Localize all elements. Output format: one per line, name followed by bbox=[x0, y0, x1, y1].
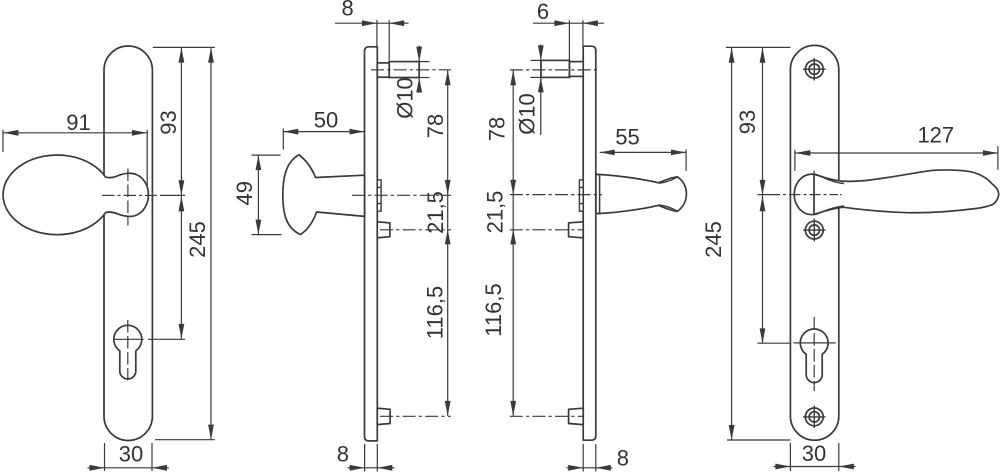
svg-text:30: 30 bbox=[119, 442, 143, 467]
svg-text:93: 93 bbox=[156, 110, 181, 134]
svg-text:Ø10: Ø10 bbox=[515, 93, 540, 135]
svg-text:8: 8 bbox=[337, 442, 349, 467]
svg-text:55: 55 bbox=[615, 125, 639, 150]
svg-text:6: 6 bbox=[537, 0, 549, 24]
svg-text:Ø10: Ø10 bbox=[393, 77, 418, 119]
svg-text:30: 30 bbox=[802, 441, 826, 466]
svg-text:50: 50 bbox=[314, 108, 338, 133]
svg-text:91: 91 bbox=[66, 110, 90, 135]
svg-text:245: 245 bbox=[701, 221, 726, 258]
svg-text:78: 78 bbox=[485, 117, 510, 141]
svg-text:245: 245 bbox=[185, 221, 210, 258]
svg-text:49: 49 bbox=[232, 181, 257, 205]
svg-text:21,5: 21,5 bbox=[483, 191, 508, 234]
svg-text:116,5: 116,5 bbox=[481, 283, 506, 336]
svg-text:116,5: 116,5 bbox=[423, 286, 448, 339]
svg-text:21,5: 21,5 bbox=[423, 191, 448, 234]
svg-text:78: 78 bbox=[423, 114, 448, 138]
svg-text:8: 8 bbox=[341, 0, 353, 21]
svg-text:93: 93 bbox=[735, 110, 760, 134]
svg-text:127: 127 bbox=[917, 123, 954, 148]
svg-text:8: 8 bbox=[617, 446, 629, 471]
